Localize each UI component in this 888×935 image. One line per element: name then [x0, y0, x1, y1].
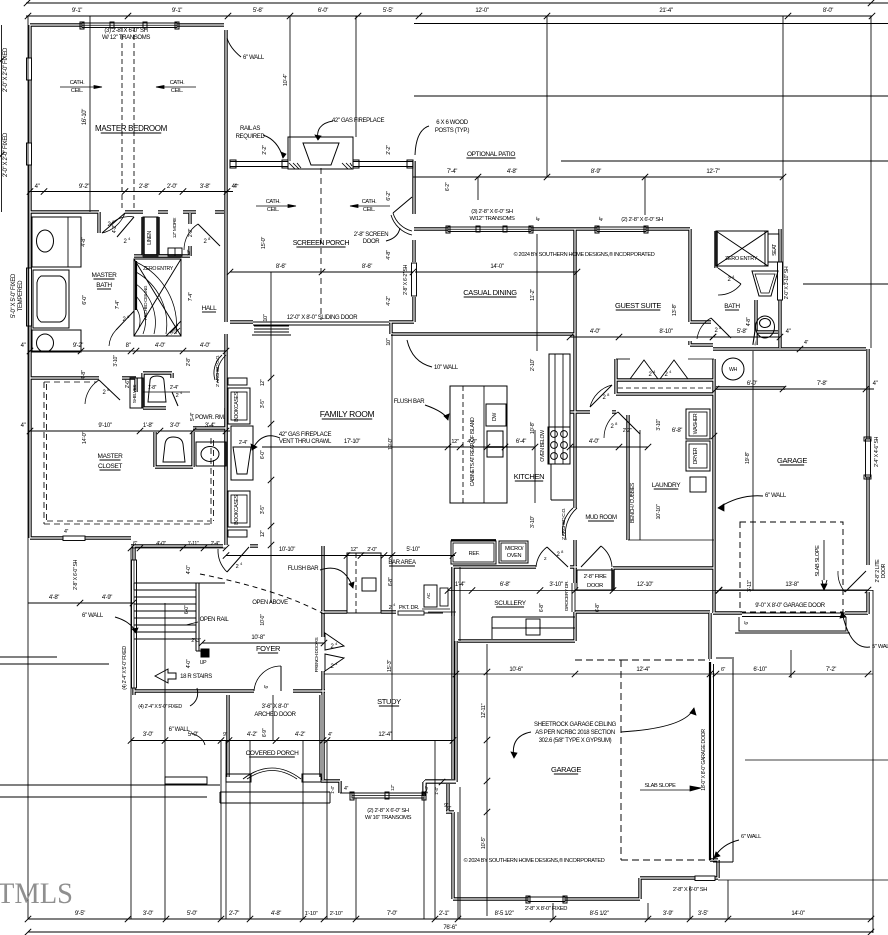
window foyer west — [132, 560, 137, 688]
svg-text:COVERED PORCH: COVERED PORCH — [246, 750, 300, 757]
master shower — [134, 259, 181, 336]
svg-text:10": 10" — [386, 338, 392, 346]
wall garage east — [866, 349, 869, 614]
svg-text:LINEN: LINEN — [147, 231, 153, 245]
vest door 2-4 — [117, 217, 134, 237]
svg-text:4": 4" — [21, 423, 26, 429]
wall mud south — [613, 566, 714, 569]
svg-text:ARCHED DOOR: ARCHED DOOR — [254, 712, 296, 718]
svg-text:LAUNDRY: LAUNDRY — [652, 482, 682, 489]
dashed open above arc — [200, 574, 324, 614]
porch center ext — [272, 695, 274, 741]
svg-text:BOOKCASES: BOOKCASES — [234, 391, 240, 421]
svg-text:6" WALL: 6" WALL — [243, 55, 265, 61]
window jamb right — [175, 22, 179, 29]
ext line x547 — [546, 16, 548, 177]
svg-text:6'-8": 6'-8" — [539, 603, 545, 612]
svg-text:12'-0": 12'-0" — [475, 8, 488, 14]
svg-text:3'-5": 3'-5" — [260, 399, 266, 408]
svg-text:12'-7": 12'-7" — [706, 169, 719, 175]
window bath east — [778, 262, 783, 300]
svg-text:16'-10": 16'-10" — [82, 109, 88, 125]
wall wc — [143, 373, 172, 408]
svg-text:(2) 2'-8" X 6'-0" SH: (2) 2'-8" X 6'-0" SH — [367, 808, 409, 814]
svg-text:4: 4 — [240, 562, 242, 566]
guest bath door — [711, 318, 731, 338]
svg-text:2'-1": 2'-1" — [439, 911, 449, 917]
wall north main — [414, 227, 690, 230]
wall garage door jambs — [713, 611, 868, 614]
svg-text:10'-4": 10'-4" — [283, 74, 289, 87]
svg-text:BENCH / CUBBIES: BENCH / CUBBIES — [630, 482, 636, 523]
svg-text:1'-4": 1'-4" — [330, 785, 336, 793]
svg-text:(3) 2'-8" X 6'-0" SH: (3) 2'-8" X 6'-0" SH — [104, 28, 147, 34]
svg-text:GROCERY DR.: GROCERY DR. — [564, 581, 570, 611]
wall wh closet south — [716, 386, 785, 389]
wall closet hall — [134, 378, 137, 392]
svg-text:5'-6": 5'-6" — [253, 8, 263, 14]
arched co hall arcs — [217, 355, 226, 383]
svg-text:9'-0" X 8'-0" GARAGE DOOR: 9'-0" X 8'-0" GARAGE DOOR — [755, 603, 826, 609]
svg-text:(4) 2'-4" X 5'-0" FIXED: (4) 2'-4" X 5'-0" FIXED — [122, 646, 128, 690]
svg-text:5'-8": 5'-8" — [737, 329, 747, 335]
svg-text:SHEETROCK GARAGE CEILING: SHEETROCK GARAGE CEILING — [534, 722, 617, 728]
svg-text:12'-4": 12'-4" — [636, 667, 649, 673]
svg-text:18 R STAIRS: 18 R STAIRS — [180, 674, 212, 680]
svg-text:12": 12" — [350, 547, 358, 553]
svg-text:6'-9": 6'-9" — [262, 728, 268, 737]
wall bath south — [30, 376, 136, 379]
svg-text:3'-0": 3'-0" — [143, 911, 153, 917]
svg-text:(2) 2'-8" X 6'-0" SH: (2) 2'-8" X 6'-0" SH — [621, 217, 663, 223]
svg-text:302.6 (5/8" TYPE X GYPSUM): 302.6 (5/8" TYPE X GYPSUM) — [539, 738, 612, 744]
svg-text:6'-8": 6'-8" — [388, 577, 394, 586]
svg-text:4'-8": 4'-8" — [507, 169, 517, 175]
svg-text:7'-4": 7'-4" — [447, 169, 457, 175]
dim line y351 — [28, 350, 226, 352]
svg-text:10": 10" — [263, 314, 269, 322]
dim line y590 — [448, 590, 873, 592]
wall kitchen south — [453, 565, 577, 568]
svg-text:4'-0": 4'-0" — [589, 439, 599, 445]
svg-text:DOOR: DOOR — [363, 239, 381, 245]
svg-text:2'-0" X 2'-0" FIXED: 2'-0" X 2'-0" FIXED — [3, 132, 9, 177]
svg-text:AC: AC — [426, 592, 432, 599]
stair rail — [195, 583, 197, 651]
svg-text:10'-10": 10'-10" — [279, 547, 295, 553]
svg-text:14'-0": 14'-0" — [791, 911, 804, 917]
svg-text:3'-5": 3'-5" — [260, 505, 266, 514]
guest closet bifold — [630, 360, 688, 379]
foyer north door — [227, 547, 249, 572]
wall bath east — [778, 229, 781, 348]
svg-text:5'-0": 5'-0" — [187, 911, 197, 917]
svg-text:3'-10": 3'-10" — [549, 582, 562, 588]
toilet wc — [148, 376, 166, 402]
ext line x392 — [391, 334, 393, 740]
svg-text:2'-2": 2'-2" — [386, 145, 392, 155]
line right y760 — [745, 759, 888, 761]
wall garage hall south — [575, 568, 710, 612]
svg-text:OVEN BELOW: OVEN BELOW — [540, 430, 546, 462]
door master bath entry — [102, 213, 125, 233]
ext x460 garage — [459, 787, 461, 919]
svg-text:3'-6" X 8'-0": 3'-6" X 8'-0" — [262, 704, 289, 710]
ext x648 bottom — [647, 903, 649, 919]
closet dashed2 — [211, 438, 214, 524]
mud door — [581, 546, 601, 567]
patio dim line y177 — [413, 176, 783, 178]
dim line bottom — [28, 918, 873, 920]
svg-text:12": 12" — [260, 379, 266, 386]
svg-text:4": 4" — [64, 529, 69, 535]
svg-text:2'-8" FIRE: 2'-8" FIRE — [584, 574, 607, 580]
svg-text:21'-4": 21'-4" — [659, 8, 672, 14]
svg-text:10'-5": 10'-5" — [481, 837, 487, 850]
wall garage east lower — [710, 613, 718, 878]
svg-text:4'-8": 4'-8" — [386, 250, 392, 260]
wall master bedroom south — [30, 210, 224, 213]
svg-text:2: 2 — [176, 393, 179, 399]
fireplace family — [231, 426, 253, 480]
svg-text:8'-5 1/2": 8'-5 1/2" — [495, 911, 514, 917]
window porch right — [412, 263, 417, 296]
wall garage south — [453, 878, 718, 899]
ext x356 bottom — [355, 798, 357, 919]
svg-text:15'-0": 15'-0" — [261, 237, 267, 250]
guest door — [590, 385, 612, 407]
svg-text:DOOR: DOOR — [881, 563, 887, 578]
window study front — [352, 793, 424, 798]
svg-text:BAR AREA: BAR AREA — [388, 560, 416, 566]
ext line x535 kitchen — [534, 430, 536, 503]
wall porch right — [412, 161, 415, 322]
ext x435 bottom — [423, 798, 425, 919]
top line y23 — [414, 23, 888, 25]
dim line y389 garage — [785, 388, 874, 390]
svg-text:CATH.: CATH. — [362, 199, 377, 205]
svg-text:GUEST SUITE: GUEST SUITE — [615, 301, 661, 310]
arched co kitchen — [563, 508, 573, 536]
svg-text:MUD ROOM: MUD ROOM — [585, 515, 617, 521]
svg-text:13'-8": 13'-8" — [672, 304, 678, 317]
wall bath vest — [97, 212, 100, 233]
svg-text:19'-8": 19'-8" — [745, 452, 751, 465]
svg-text:BATH: BATH — [96, 282, 112, 289]
svg-text:SEAT: SEAT — [772, 243, 778, 256]
ext x303 bottom — [302, 740, 304, 919]
pocket door — [398, 611, 424, 615]
ext x728 bottom — [727, 880, 729, 919]
svg-text:SCULLERY: SCULLERY — [494, 600, 526, 607]
svg-text:5'-5": 5'-5" — [383, 8, 393, 14]
svg-text:17'-10": 17'-10" — [344, 439, 360, 445]
left yard lines — [0, 656, 57, 658]
svg-text:GARAGE: GARAGE — [777, 456, 807, 465]
svg-text:9": 9" — [223, 732, 228, 738]
wall family west — [224, 334, 227, 545]
left ext line x28 — [27, 16, 29, 919]
svg-text:DW: DW — [492, 413, 498, 421]
wall foyer north — [131, 544, 258, 547]
svg-text:7'-2": 7'-2" — [826, 667, 836, 673]
wall family jog — [230, 322, 414, 334]
svg-text:W/ 12" TRANSOMS: W/ 12" TRANSOMS — [102, 35, 150, 41]
svg-text:10'-8": 10'-8" — [530, 422, 536, 435]
svg-text:7'-4": 7'-4" — [115, 300, 121, 309]
svg-text:4'-0": 4'-0" — [186, 659, 192, 668]
dim line overall — [28, 931, 873, 933]
ext line x90 bedroom — [89, 16, 91, 212]
wall study west — [321, 546, 324, 691]
ext x221 bottom — [220, 741, 222, 919]
svg-text:AS PER NCRBC 2018 SECTION: AS PER NCRBC 2018 SECTION — [535, 730, 615, 736]
svg-text:OPEN ABOVE: OPEN ABOVE — [252, 600, 288, 606]
svg-text:7'-0": 7'-0" — [387, 911, 397, 917]
dim line wc — [143, 391, 190, 393]
svg-text:CEIL.: CEIL. — [363, 207, 376, 213]
svg-text:REF.: REF. — [469, 551, 481, 557]
svg-text:3'-10": 3'-10" — [113, 355, 119, 367]
svg-text:8'-6": 8'-6" — [276, 264, 286, 270]
dim line y272 porch — [230, 271, 413, 273]
fireplace porch box — [288, 137, 353, 169]
rear door right — [845, 571, 866, 592]
svg-text:12": 12" — [390, 784, 396, 791]
window garage south — [528, 897, 565, 902]
left ext line x1 — [1, 25, 3, 212]
window bedroom left a — [27, 58, 32, 80]
wall powder — [155, 432, 193, 467]
svg-text:4'-0": 4'-0" — [186, 565, 192, 574]
top dimension line — [26, 15, 872, 17]
svg-text:4": 4" — [21, 343, 26, 349]
bath south door — [99, 380, 120, 400]
shower door 2-6 — [116, 311, 134, 330]
svg-text:6" WALL: 6" WALL — [82, 613, 104, 619]
garage sw ticks — [439, 779, 445, 785]
scullery counter — [492, 617, 575, 639]
svg-text:2'-7": 2'-7" — [229, 911, 239, 917]
svg-text:6'-10": 6'-10" — [753, 667, 766, 673]
cp steps — [220, 791, 330, 793]
porch rail — [230, 161, 288, 163]
wall study south — [321, 691, 324, 780]
bookcase lower — [228, 491, 250, 527]
svg-text:2'-8": 2'-8" — [186, 357, 192, 366]
svg-text:MASTER: MASTER — [98, 453, 124, 460]
svg-text:7'-8": 7'-8" — [817, 381, 827, 387]
svg-text:FOYER: FOYER — [256, 644, 281, 653]
wall porch cp west — [226, 695, 229, 777]
dim line 10'-8 — [202, 642, 324, 644]
toilet powder — [163, 437, 185, 462]
guest vanity — [752, 271, 778, 296]
island sink — [487, 431, 503, 457]
svg-text:14'-0": 14'-0" — [82, 432, 88, 445]
svg-text:4'-8": 4'-8" — [81, 237, 87, 247]
vanity top — [32, 217, 81, 267]
svg-text:6'-0": 6'-0" — [82, 295, 88, 305]
svg-text:8": 8" — [126, 343, 131, 349]
ext line x753 — [752, 351, 754, 590]
svg-text:4": 4" — [786, 329, 791, 335]
svg-text:6'-8": 6'-8" — [500, 582, 510, 588]
wall foyer south — [134, 689, 325, 692]
wall closet south — [30, 536, 131, 539]
svg-text:42" GAS FIREPLACE: 42" GAS FIREPLACE — [279, 432, 332, 438]
svg-text:6 X 6 WOOD: 6 X 6 WOOD — [436, 120, 469, 126]
svg-text:9'-1": 9'-1" — [72, 8, 82, 14]
svg-text:2'-10": 2'-10" — [530, 359, 536, 372]
dim line y431 — [28, 430, 230, 432]
svg-text:GARAGE: GARAGE — [551, 765, 581, 774]
svg-text:1'-8": 1'-8" — [143, 423, 153, 429]
svg-text:8'-10": 8'-10" — [659, 329, 672, 335]
garage apron right — [739, 617, 846, 631]
wall dining east — [573, 229, 576, 354]
svg-text:2'-3": 2'-3" — [191, 638, 201, 644]
top boundary line — [26, 2, 888, 4]
svg-text:CATH.: CATH. — [170, 80, 185, 86]
niche hall — [168, 248, 182, 256]
dim line y447 guest — [570, 446, 648, 448]
window garage south2 — [695, 876, 715, 881]
svg-text:12": 12" — [186, 249, 192, 256]
svg-text:FLUSH BAR: FLUSH BAR — [288, 566, 320, 572]
svg-text:4": 4" — [35, 184, 40, 190]
closet face line gs — [616, 358, 630, 360]
svg-text:7'-4": 7'-4" — [188, 292, 194, 301]
ext x458 bottom — [457, 812, 459, 919]
wall guest closet sides — [616, 359, 714, 394]
svg-text:(3) 2'-8" X 6'-0" SH: (3) 2'-8" X 6'-0" SH — [471, 209, 513, 215]
svg-text:W/ 16" TRANSOMS: W/ 16" TRANSOMS — [365, 815, 412, 821]
svg-text:2'-8" SCREEN: 2'-8" SCREEN — [354, 232, 388, 238]
ext x553 bottom — [552, 903, 554, 919]
svg-text:W/12" TRANSOMS: W/12" TRANSOMS — [469, 216, 515, 222]
svg-text:9'-10": 9'-10" — [98, 423, 111, 429]
svg-text:DOOR: DOOR — [587, 583, 603, 589]
dryer box — [686, 441, 710, 471]
svg-text:SHELVES: SHELVES — [132, 385, 137, 404]
svg-text:4: 4 — [180, 391, 182, 395]
ac units — [424, 585, 437, 607]
svg-text:OVEN: OVEN — [507, 553, 522, 559]
svg-text:12" MORE: 12" MORE — [172, 217, 178, 238]
svg-text:4'-8": 4'-8" — [81, 370, 87, 380]
svg-text:11'-2": 11'-2" — [530, 289, 536, 301]
island — [450, 386, 507, 503]
window bath left — [27, 268, 32, 326]
shelves closet — [130, 378, 143, 408]
svg-text:2'-0": 2'-0" — [167, 184, 177, 190]
svg-text:10'-10": 10'-10" — [656, 504, 662, 519]
ceiling ridge dashed b — [133, 27, 135, 211]
svg-text:2'-4" X 4'-6" SH: 2'-4" X 4'-6" SH — [874, 436, 880, 467]
window casual dining — [448, 227, 531, 232]
svg-text:8'-9": 8'-9" — [591, 169, 601, 175]
svg-text:12'-11": 12'-11" — [481, 703, 487, 718]
svg-text:2: 2 — [236, 564, 239, 570]
svg-text:4'-2": 4'-2" — [247, 732, 257, 738]
svg-text:10'-8": 10'-8" — [251, 635, 264, 641]
svg-text:3'-5": 3'-5" — [698, 911, 708, 917]
wall master bedroom left — [28, 25, 31, 378]
kitchen door — [547, 547, 568, 567]
shower arcs — [136, 262, 177, 334]
svg-text:© 2024 BY SOUTHERN HOME DESIGN: © 2024 BY SOUTHERN HOME DESIGNS,® INCORP… — [514, 251, 655, 258]
ext x324 bottom — [326, 741, 328, 919]
svg-text:2'-8" X 6'-2" SH: 2'-8" X 6'-2" SH — [403, 264, 409, 295]
svg-text:3'-4": 3'-4" — [205, 423, 215, 429]
svg-text:6'-0": 6'-0" — [184, 605, 190, 614]
svg-text:4": 4" — [234, 184, 239, 190]
range stove — [548, 427, 570, 464]
shower seat tri — [166, 321, 181, 336]
wall bar south — [321, 610, 396, 613]
svg-text:2'-4": 2'-4" — [211, 541, 220, 547]
svg-text:4'-9": 4'-9" — [102, 595, 112, 601]
svg-text:6'-0": 6'-0" — [260, 450, 266, 459]
wh circle — [722, 358, 744, 380]
wall wc alcove — [690, 300, 756, 345]
svg-text:3'-10": 3'-10" — [656, 419, 662, 431]
dim 6'-8 laundry — [711, 433, 717, 439]
ext line x871 upper — [870, 16, 872, 348]
svg-text:WH: WH — [729, 367, 738, 373]
svg-text:2'-8" X 8'-0" FIXED: 2'-8" X 8'-0" FIXED — [525, 906, 567, 912]
svg-text:(4) 2'-4" X 5'-0" FIXED: (4) 2'-4" X 5'-0" FIXED — [138, 704, 182, 710]
stair arrow — [155, 669, 176, 683]
svg-text:CATH.: CATH. — [266, 199, 281, 205]
stairs — [134, 589, 196, 591]
svg-text:4'-0": 4'-0" — [200, 343, 210, 349]
dim line y548 — [131, 547, 226, 549]
wall family north — [391, 332, 575, 335]
svg-text:MICRO/: MICRO/ — [505, 546, 524, 552]
svg-text:2'-0" X 3'-10" SH: 2'-0" X 3'-10" SH — [784, 266, 790, 299]
ext line x487 garage — [486, 644, 488, 916]
cp front left — [226, 774, 251, 782]
svg-text:12'-10": 12'-10" — [637, 582, 653, 588]
svg-text:6'-0": 6'-0" — [747, 381, 757, 387]
patio top line — [414, 95, 888, 97]
wall guest closet bottom — [616, 392, 714, 395]
svg-text:10'-6": 10'-6" — [509, 667, 522, 673]
svg-text:CASUAL DINING: CASUAL DINING — [463, 288, 517, 297]
svg-text:6'-0": 6'-0" — [318, 8, 328, 14]
bench line — [639, 430, 641, 540]
patio dim drop a — [477, 177, 479, 200]
guest shower door — [718, 268, 741, 284]
wall bath west — [690, 229, 716, 345]
svg-text:6" WALL: 6" WALL — [765, 493, 787, 499]
svg-text:15'-3": 15'-3" — [387, 660, 393, 673]
svg-text:BOOKCASES: BOOKCASES — [234, 494, 240, 524]
svg-text:HALL: HALL — [202, 305, 218, 312]
line right y880 — [718, 879, 888, 881]
seat guest — [768, 234, 779, 262]
svg-text:VENT THRU CRAWL: VENT THRU CRAWL — [279, 439, 332, 445]
dim line y740 — [131, 740, 453, 742]
window guest suite — [597, 227, 646, 232]
ext line x290 — [289, 16, 291, 161]
svg-text:6" WALL: 6" WALL — [741, 834, 762, 840]
fireplace hatch left — [289, 163, 301, 169]
wall mud west — [573, 354, 576, 412]
cp front right — [302, 774, 321, 782]
